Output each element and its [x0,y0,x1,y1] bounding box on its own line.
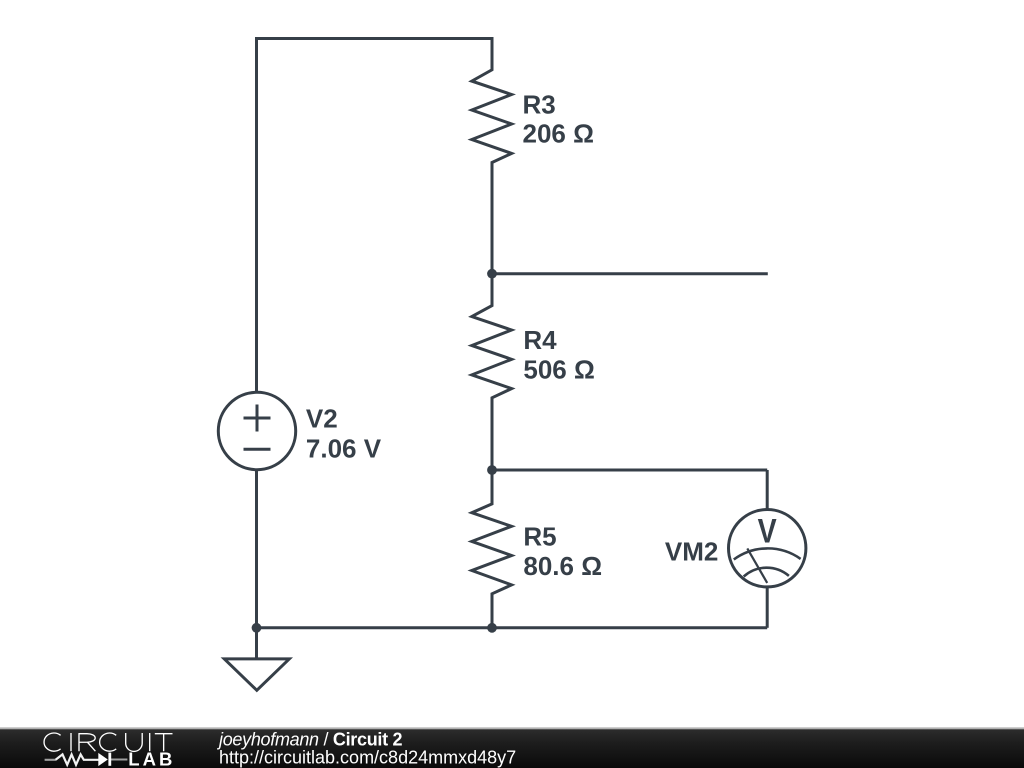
svg-text:http://circuitlab.com/c8d24mmx: http://circuitlab.com/c8d24mmxd48y7 [219,748,516,768]
svg-text:506 Ω: 506 Ω [523,355,594,385]
svg-text:80.6 Ω: 80.6 Ω [523,551,602,581]
svg-text:V2: V2 [306,404,338,434]
svg-text:R3: R3 [523,89,556,119]
svg-text:206 Ω: 206 Ω [523,119,594,149]
svg-text:VM2: VM2 [665,537,718,567]
svg-text:V: V [758,512,777,550]
svg-text:R4: R4 [523,325,557,355]
svg-text:joeyhofmann / Circuit 2: joeyhofmann / Circuit 2 [216,729,402,749]
svg-text:R5: R5 [523,522,556,552]
svg-text:LAB: LAB [128,749,175,768]
svg-text:7.06 V: 7.06 V [306,433,382,463]
